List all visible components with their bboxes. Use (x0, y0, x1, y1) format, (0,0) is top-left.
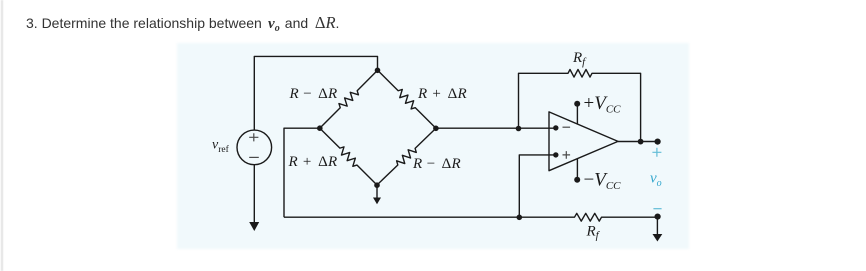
svg-text:−VCC: −VCC (584, 169, 622, 192)
svg-text:vref: vref (212, 138, 230, 156)
svg-text:+VCC: +VCC (584, 93, 622, 116)
svg-text:R−ΔR: R−ΔR (289, 86, 338, 102)
svg-text:R−ΔR: R−ΔR (412, 156, 461, 172)
svg-text:R+ΔR: R+ΔR (288, 154, 338, 170)
svg-text:Rf: Rf (572, 50, 587, 68)
svg-text:Rf: Rf (586, 224, 601, 242)
svg-text:R+ΔR: R+ΔR (417, 86, 467, 102)
svg-text:vo: vo (650, 171, 662, 190)
